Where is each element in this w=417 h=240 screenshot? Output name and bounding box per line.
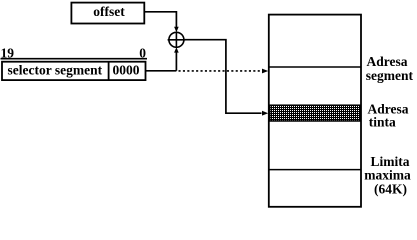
division line limit	[269, 169, 361, 171]
svg-text:segment: segment	[366, 68, 414, 83]
adder plus vertical	[175, 32, 177, 47]
svg-text:maxima: maxima	[364, 168, 411, 183]
svg-text:offset: offset	[93, 4, 125, 19]
wire selector to junction	[146, 70, 177, 72]
arrowhead solid into memory	[262, 111, 268, 116]
wire junction up to adder	[175, 52, 177, 71]
svg-text:0: 0	[139, 45, 146, 60]
memory map box	[269, 15, 361, 207]
arrowhead dotted into memory	[262, 69, 268, 74]
dotted wire junction to memory	[179, 70, 263, 72]
svg-text:tinta: tinta	[369, 115, 396, 130]
offset box	[71, 3, 144, 24]
bit index ruler line	[1, 58, 148, 60]
svg-text:0000: 0000	[113, 62, 140, 77]
adder plus horizontal	[168, 39, 186, 41]
divider between selector and 0000	[108, 62, 110, 80]
arrowhead into adder bottom	[174, 47, 179, 52]
selector segment box	[2, 62, 146, 80]
svg-text:19: 19	[1, 45, 15, 60]
svg-text:(64K): (64K)	[374, 182, 407, 197]
wire adder output to memory	[185, 40, 262, 114]
wire offset to adder	[144, 12, 176, 28]
adder circle	[169, 32, 184, 47]
division line segment base	[269, 66, 361, 68]
arrowhead into adder top	[174, 27, 179, 32]
svg-text:selector segment: selector segment	[8, 62, 103, 77]
hatched target band	[270, 105, 360, 121]
